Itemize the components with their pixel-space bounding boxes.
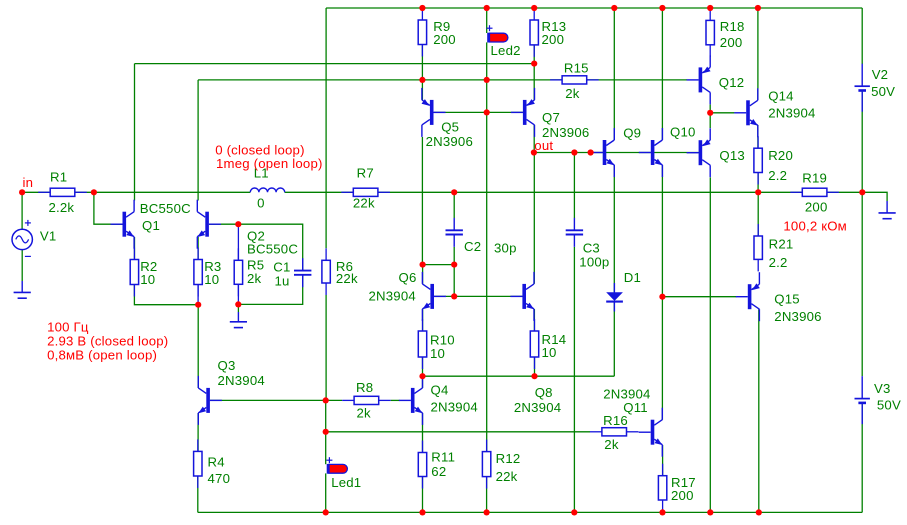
wire C3 to bottom rail	[573, 247, 575, 512]
resistor R12 22k	[482, 440, 520, 489]
wire bottom negative rail	[198, 511, 862, 513]
junction R13 bottom	[531, 61, 537, 67]
ground at output	[879, 201, 896, 219]
svg-text:in: in	[23, 175, 34, 190]
svg-text:0,8мВ (open loop): 0,8мВ (open loop)	[47, 348, 157, 363]
svg-text:1u: 1u	[275, 273, 290, 288]
junction Q2 base R5	[235, 221, 241, 227]
svg-text:2k: 2k	[247, 271, 262, 286]
junction top rail R13	[531, 5, 537, 11]
wire Q5-Q7 base line	[434, 111, 523, 113]
wire main line to C2	[453, 192, 455, 218]
wire Q15 base line	[662, 296, 736, 298]
transistor Q3	[198, 376, 222, 425]
svg-text:0: 0	[257, 195, 265, 210]
wire Q15 collector to bottom rail	[758, 309, 760, 512]
wire Q1 emitter to R2	[134, 237, 136, 260]
junction top rail Q9	[611, 5, 617, 11]
transistor Q4	[399, 376, 423, 425]
junction Q12 collector Q14 base	[707, 110, 713, 116]
resistor R19 200	[790, 170, 839, 214]
wire R3 bottom to node (component lead)	[197, 285, 199, 305]
junction out C3	[571, 149, 577, 155]
svg-text:10: 10	[430, 346, 445, 361]
transistor Q10	[639, 128, 663, 177]
junction top rail R18	[707, 5, 713, 11]
svg-text:2k: 2k	[604, 437, 619, 452]
wire C2 node down to base line	[453, 265, 455, 297]
transistor Q13	[687, 128, 711, 177]
wire bias column down to R12	[486, 112, 488, 451]
resistor R15 2k	[550, 61, 599, 102]
resistor R18 200	[706, 8, 745, 56]
svg-text:2N3906: 2N3906	[426, 134, 473, 149]
svg-text:10: 10	[542, 345, 557, 360]
wire C2 to node	[453, 247, 455, 265]
wire Q15 base node to Q11 collector	[661, 297, 663, 420]
diode D1	[606, 270, 641, 312]
wire Q8 emitter to R14	[533, 309, 535, 331]
junction Q3 base feedback	[323, 397, 329, 403]
transistor Q7	[511, 88, 535, 137]
wire Q11 emitter to R17	[662, 445, 664, 476]
svg-text:100p: 100p	[579, 255, 609, 270]
ground below R5/C1	[230, 312, 247, 328]
svg-text:R11: R11	[431, 450, 455, 465]
wire R11 to bottom rail	[422, 477, 424, 513]
svg-text:1meg (open loop): 1meg (open loop)	[216, 156, 323, 171]
wire Q4 emitter to R11	[422, 413, 424, 453]
junction Q15 base Q11 collector	[659, 294, 665, 300]
transistor Q12	[687, 55, 711, 104]
svg-text:R21: R21	[769, 236, 794, 251]
wire Q9 emitter to D1	[613, 165, 615, 292]
junction R2 R3 bottoms	[195, 302, 201, 308]
capacitor C2 30p	[446, 218, 463, 247]
wire V3 to bottom rail	[861, 404, 863, 512]
wire C2 node to Q6 collector	[422, 265, 424, 284]
wire Led1 node to R16 line	[326, 431, 590, 433]
svg-text:2N3904: 2N3904	[514, 400, 561, 415]
svg-text:2N3904: 2N3904	[369, 289, 416, 304]
junction bottom rail R17	[659, 509, 665, 515]
wire top positive rail	[326, 7, 862, 9]
svg-text:Led1: Led1	[331, 475, 361, 490]
junction R20 R19 R21	[755, 189, 761, 195]
junction R10 bottom Q4 collector	[419, 373, 425, 379]
voltage source V3 50V	[855, 376, 901, 424]
resistor R20 2.2	[754, 136, 793, 184]
svg-text:V3: V3	[874, 381, 891, 396]
svg-text:50V: 50V	[877, 398, 901, 413]
svg-text:Q1: Q1	[142, 218, 160, 233]
svg-text:2N3904: 2N3904	[768, 106, 815, 121]
svg-text:200: 200	[720, 35, 743, 50]
junction Led1 R16	[323, 429, 329, 435]
resistor R9 200	[418, 8, 456, 57]
capacitor C1 1u	[294, 258, 311, 287]
svg-text:R8: R8	[356, 380, 373, 395]
junction Q5 collector C2 link	[420, 262, 426, 268]
wire Q12 collector to Q14 base node	[709, 105, 711, 113]
resistor R17 200	[658, 464, 695, 512]
junction R1 right	[91, 189, 97, 195]
wire Q10 emitter down to Q15 base node	[661, 165, 663, 297]
svg-text:2.93 В (closed loop): 2.93 В (closed loop)	[47, 334, 168, 349]
wire Q7 collector to out node	[533, 125, 535, 153]
junction bottom rail R12	[484, 509, 490, 515]
wire R9 bottom to Q5 emitter node	[421, 45, 423, 80]
svg-text:R12: R12	[496, 451, 521, 466]
junction V2 V3 output	[859, 189, 865, 195]
wire R10 to node	[422, 357, 424, 376]
wire x134 Q1 collector column	[134, 64, 136, 201]
svg-text:R4: R4	[208, 455, 225, 470]
svg-text:R18: R18	[720, 19, 745, 34]
wire top rail to Q10 collector	[661, 8, 663, 140]
wire Led2 node to base node	[486, 80, 488, 113]
wire Q14 base line	[710, 112, 734, 114]
node out at Q7 collector	[531, 149, 537, 155]
wire main signal line left of L1	[22, 191, 250, 193]
LED Led1	[326, 457, 361, 490]
wire Led2 to R9 line	[486, 42, 488, 80]
wire R14 to node	[534, 357, 536, 376]
svg-text:Q11: Q11	[623, 400, 648, 415]
svg-text:2N3904: 2N3904	[431, 400, 478, 415]
wire Q13 collector to bottom rail	[709, 177, 711, 512]
svg-text:10: 10	[204, 272, 219, 287]
wire V1 minus to ground	[21, 250, 23, 281]
wire Led1 node to Led1	[325, 432, 327, 464]
wire R5 bottom node (component lead)	[237, 284, 239, 304]
svg-text:470: 470	[208, 471, 231, 486]
wire output node to V3	[861, 192, 863, 376]
transistor Q15	[736, 272, 760, 321]
svg-text:100,2 кОм: 100,2 кОм	[783, 218, 847, 233]
svg-text:22k: 22k	[336, 271, 358, 286]
svg-text:200: 200	[671, 488, 694, 503]
wire R5 node down (component lead)	[237, 224, 239, 260]
svg-text:22k: 22k	[496, 469, 518, 484]
transistor Q11	[639, 408, 663, 457]
svg-text:2k: 2k	[565, 86, 580, 101]
svg-text:30p: 30p	[494, 241, 517, 256]
wire Q1 base from input node	[94, 192, 123, 224]
transistor Q9	[591, 128, 615, 177]
wire Q3 emitter to R4	[197, 413, 199, 451]
junction bottom rail R11	[419, 509, 425, 515]
wire node to Q4 collector	[422, 376, 424, 388]
wire C1 branch top	[238, 224, 302, 270]
svg-text:200: 200	[805, 200, 828, 215]
transistor Q14	[734, 88, 758, 137]
wire R10-R14 node line	[423, 375, 615, 377]
wire R2 bottom to R3 bottom node	[134, 285, 198, 305]
svg-text:Q15: Q15	[774, 292, 800, 307]
wire V2 to output node	[861, 92, 863, 193]
svg-text:V1: V1	[40, 228, 57, 243]
svg-text:Q14: Q14	[768, 89, 794, 104]
wire R13 node to Q7 emitter	[533, 64, 535, 100]
svg-text:Q10: Q10	[670, 125, 696, 140]
svg-text:100 Гц: 100 Гц	[47, 319, 89, 334]
svg-text:Q12: Q12	[719, 75, 745, 90]
wire R4 bottom to rail corner	[197, 476, 199, 512]
wire output node to R21	[757, 192, 759, 236]
wire top rail corner to V2	[861, 8, 863, 64]
svg-text:200: 200	[433, 32, 456, 47]
junction R9 bottom Q5 emitter	[419, 77, 425, 83]
junction bottom rail Led1	[323, 509, 329, 515]
transistor Q6	[422, 272, 446, 321]
svg-text:out: out	[534, 138, 553, 153]
junction top rail Q10	[659, 5, 665, 11]
resistor R7 22k	[341, 165, 390, 210]
svg-text:R19: R19	[802, 170, 827, 185]
LED Led2	[487, 25, 521, 58]
wire out node to C3	[573, 153, 575, 219]
svg-text:Q6: Q6	[399, 270, 417, 285]
inductor L1 0	[250, 165, 284, 210]
svg-text:Q9: Q9	[623, 126, 641, 141]
wire Q2 base to R5 node	[209, 223, 238, 225]
svg-text:2.2k: 2.2k	[49, 200, 75, 215]
resistor R5 2k	[234, 248, 264, 296]
wire C2 link	[422, 264, 454, 266]
resistor R16 2k	[590, 413, 639, 452]
transistor Q1	[111, 200, 135, 249]
wire Q6 emitter to R10	[422, 309, 424, 331]
voltage source V1 sine input	[12, 220, 56, 257]
resistor R8 2k	[342, 380, 391, 420]
wire out line Q7 collector to Q13 base	[534, 152, 699, 154]
wire output node to ground	[862, 192, 887, 201]
svg-text:C3: C3	[583, 240, 600, 255]
resistor R2 10	[130, 248, 157, 297]
transistor Q5	[422, 88, 446, 137]
svg-text:2.2: 2.2	[768, 168, 787, 183]
svg-text:2k: 2k	[357, 405, 372, 420]
wire Led1 to bottom rail	[325, 473, 327, 512]
wire Q2 emitter to R3	[197, 237, 199, 260]
svg-text:R20: R20	[768, 148, 793, 163]
wire C1 branch bottom	[238, 275, 302, 304]
junction bottom rail Q13	[707, 509, 713, 515]
wire R5 ground stem	[237, 304, 239, 312]
wire Q3 base node to Led1 node	[325, 400, 327, 431]
junction C2 bottom	[451, 262, 457, 268]
resistor R11 62	[418, 441, 455, 489]
svg-text:Q4: Q4	[431, 383, 449, 398]
wire top rail to Q9 collector	[613, 8, 615, 140]
svg-text:V2: V2	[872, 67, 889, 82]
junction bottom rail C3	[571, 509, 577, 515]
svg-text:R7: R7	[357, 165, 374, 180]
voltage source V2 50V	[855, 64, 896, 112]
wire out node down to Q8 collector	[533, 153, 535, 284]
svg-text:2N3906: 2N3906	[774, 309, 821, 324]
capacitor C3 100p	[566, 218, 583, 247]
wire R6 bottom to Q3 base node	[325, 295, 327, 400]
wire node to Q3 collector	[197, 305, 199, 388]
junction top rail R9	[419, 5, 425, 11]
svg-text:200: 200	[542, 32, 565, 47]
wire Q6-Q8 base line	[434, 295, 522, 297]
wire Q3 base line	[210, 399, 342, 401]
resistor R13 200	[530, 8, 566, 57]
wire feedback column top	[325, 8, 327, 248]
wire Q1 collector to R13 node	[135, 63, 535, 65]
svg-text:Led2: Led2	[491, 43, 521, 58]
wire Q5 emitter up	[421, 80, 423, 100]
junction top rail Led2	[484, 5, 490, 11]
junction Led2 bottom	[484, 77, 490, 83]
wire Led2 column top	[486, 8, 488, 33]
svg-text:Q3: Q3	[218, 358, 236, 373]
wire Q5 collector down to C2 node	[421, 137, 423, 265]
junction Q6 Q8 base line	[451, 293, 457, 299]
svg-text:R1: R1	[50, 169, 67, 184]
svg-text:2N3904: 2N3904	[218, 373, 265, 388]
svg-text:0 (closed loop): 0 (closed loop)	[215, 142, 305, 157]
resistor R21 2.2	[754, 224, 793, 271]
wire R12 to bottom rail	[486, 477, 488, 513]
resistor R4 470	[194, 439, 231, 488]
svg-text:Q13: Q13	[719, 148, 745, 163]
transistor Q2	[197, 200, 221, 249]
wire R20 to output node	[757, 173, 759, 193]
wire D1 to corner	[613, 302, 615, 376]
svg-text:BC550C: BC550C	[140, 201, 191, 216]
svg-text:D1: D1	[624, 270, 641, 285]
svg-text:Q8: Q8	[535, 385, 553, 400]
svg-text:R16: R16	[603, 413, 628, 428]
svg-text:2.2: 2.2	[769, 255, 788, 270]
ground below V1	[14, 281, 31, 298]
wire R13 bottom segment	[533, 45, 535, 64]
junction main line C2	[451, 189, 457, 195]
resistor R1 2.2k	[38, 169, 87, 215]
svg-text:C2: C2	[464, 239, 481, 254]
wire x198 column Q2 collector	[197, 80, 199, 201]
junction R5 C1 ground	[235, 301, 241, 307]
wire Q2 collector feedback line to Q12 base	[198, 79, 687, 81]
transistor Q8	[510, 272, 534, 321]
wire R8 to Q4 base	[391, 399, 400, 401]
svg-text:50V: 50V	[871, 84, 895, 99]
resistor R6 22k	[322, 248, 358, 295]
svg-text:Q5: Q5	[441, 119, 459, 134]
junction out Q9 base	[588, 149, 594, 155]
wire Q14 collector to top rail	[757, 8, 759, 100]
svg-text:C1: C1	[273, 260, 290, 275]
wire Q14 base node to Q13 emitter	[709, 113, 711, 128]
junction R14 bottom	[531, 373, 537, 379]
svg-text:10: 10	[140, 272, 155, 287]
wire Q14 emitter to R20	[757, 125, 759, 148]
wire main signal line right of L1	[285, 191, 863, 193]
junction bottom rail Q15	[756, 509, 762, 515]
junction Q5 Q7 bases	[484, 109, 490, 115]
svg-text:BC550C: BC550C	[247, 241, 298, 256]
wire V1 to input node	[21, 192, 23, 229]
junction top rail Q14	[755, 5, 761, 11]
svg-text:Q7: Q7	[542, 110, 560, 125]
resistor R14 10	[530, 319, 566, 369]
svg-text:62: 62	[431, 464, 446, 479]
svg-text:R15: R15	[564, 61, 589, 76]
node in at V1	[19, 189, 25, 195]
resistor R3 10	[194, 248, 222, 297]
svg-text:22k: 22k	[353, 195, 375, 210]
resistor R10 10	[418, 319, 454, 369]
